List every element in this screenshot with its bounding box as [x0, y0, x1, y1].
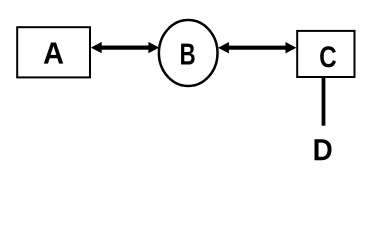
box A: [17, 27, 90, 77]
label D: [315, 139, 332, 160]
node B ellipse: [159, 20, 218, 86]
wire arrow B-C left head: [218, 42, 229, 53]
box C: [297, 31, 354, 77]
label B: [181, 44, 195, 65]
wire C-D vertical line: [322, 78, 326, 126]
wire arrow B-C shaft: [226, 46, 288, 50]
label A: [44, 43, 63, 64]
label C: [320, 46, 336, 67]
wire arrow B-C right head: [286, 42, 297, 53]
wire arrow A-B right head: [148, 42, 159, 53]
wire arrow A-B shaft: [99, 45, 151, 49]
wire arrow A-B left head: [91, 42, 102, 53]
